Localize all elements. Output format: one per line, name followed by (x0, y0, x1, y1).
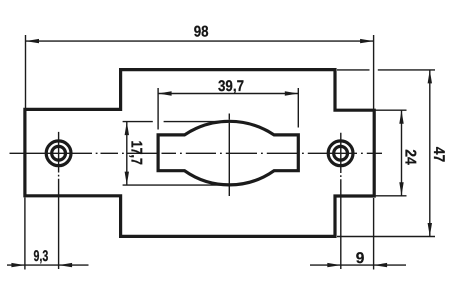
svg-text:9: 9 (356, 250, 365, 267)
svg-text:47: 47 (430, 147, 447, 163)
dim 47 line (429, 70, 431, 237)
dim 98 extension right (373, 35, 375, 109)
dim 47 arrow top (428, 70, 432, 84)
dim 39.7 extension right (297, 88, 299, 128)
dim 9.3 arrow left (11, 263, 25, 267)
hole right inner circle (334, 146, 348, 160)
dim 47 tick bottom (337, 236, 435, 238)
dim 98 arrow right (360, 39, 374, 43)
svg-text:98: 98 (194, 24, 209, 41)
dim 9 arrow right (374, 263, 388, 267)
svg-text:17,7: 17,7 (127, 141, 144, 165)
dim 17.7 tangent top (164, 121, 226, 123)
dim 9.3 arrow right (59, 263, 73, 267)
dim 9.3 extension left (24, 198, 26, 270)
dim 98 arrow left (26, 39, 40, 43)
hole right outer circle (328, 141, 353, 166)
dim 39.7 arrow left (158, 91, 172, 95)
dim 17.7 tick top (123, 121, 153, 123)
svg-text:24: 24 (402, 149, 419, 165)
hole left inner circle (52, 146, 66, 160)
hole left outer circle (46, 141, 71, 166)
dim 98 extension left (25, 35, 27, 108)
dim 17.7 tick bottom / tangent (123, 184, 232, 186)
svg-text:9,3: 9,3 (34, 248, 49, 265)
dim 24 tick top (375, 109, 407, 111)
dim 24 arrow bottom (399, 182, 403, 196)
vertical centerline left hole (58, 132, 60, 269)
dim 98 line (26, 40, 374, 42)
dim 47 tick top (337, 69, 435, 71)
svg-text:39,7: 39,7 (218, 78, 244, 95)
dim 9 arrow left (327, 263, 341, 267)
dim 47 arrow bottom (428, 223, 432, 237)
dim 17.7 arrow bottom (125, 172, 129, 186)
dim 39.7 extension left (157, 88, 159, 130)
dim 9.3 line (7, 264, 89, 266)
dim 9 line (310, 264, 406, 266)
dim 24 line (401, 110, 403, 196)
dim 24 arrow top (399, 110, 403, 124)
dim 39.7 line (158, 93, 298, 95)
horizontal centerline (10, 152, 383, 154)
dim 17.7 arrow top (125, 122, 129, 136)
dim 24 tick bottom (375, 195, 407, 197)
vertical centerline right hole (340, 133, 342, 269)
dim 9 extension right (373, 198, 375, 270)
vertical centerline slot (228, 114, 230, 197)
dim 17.7 line (126, 122, 128, 186)
dim 39.7 arrow right (285, 91, 299, 95)
plate outline (25, 70, 374, 237)
center cutout slot with bulge (158, 121, 298, 185)
